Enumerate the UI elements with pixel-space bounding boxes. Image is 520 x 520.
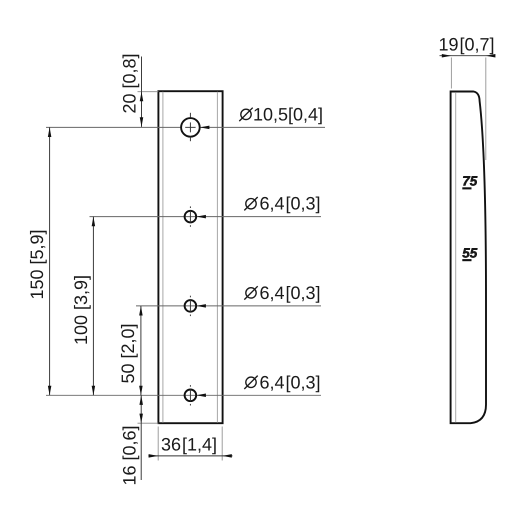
hole 2 d6.4 — [185, 211, 197, 223]
hole 3 d6.4 — [185, 300, 197, 312]
label hole1 d10.5 — [239, 104, 323, 124]
hole2 centerline vertical — [189, 206, 191, 226]
svg-text:[0,3]: [0,3] — [286, 283, 321, 303]
svg-text:150 [5,9]: 150 [5,9] — [27, 229, 47, 299]
extension line hole4 row — [46, 394, 321, 396]
dimension 50 line — [140, 306, 142, 395]
dimension 19 line — [440, 55, 495, 57]
hole 1 d10.5 — [181, 118, 200, 137]
dimension 19 extension lines — [450, 58, 452, 89]
svg-text:[0,3]: [0,3] — [286, 194, 321, 214]
dimension 20 line — [141, 57, 143, 127]
side view outline — [451, 92, 486, 424]
underline 75 — [462, 187, 471, 189]
svg-text:6,4: 6,4 — [260, 283, 285, 303]
dimension 36 line — [148, 455, 232, 457]
svg-text:100 [3,9]: 100 [3,9] — [71, 275, 91, 345]
svg-text:[0,4]: [0,4] — [288, 104, 323, 124]
extension line hole2 row — [90, 216, 322, 218]
svg-text:16 [0,6]: 16 [0,6] — [120, 425, 140, 485]
leader arrow hole3 — [196, 304, 206, 308]
label hole3 d6.4 — [244, 283, 320, 303]
svg-text:[1,4]: [1,4] — [182, 435, 217, 455]
hole3 centerline vertical — [189, 296, 191, 316]
svg-text:[0,7]: [0,7] — [460, 35, 495, 55]
svg-text:75: 75 — [462, 173, 478, 188]
hole1 centerline vertical — [185, 113, 195, 141]
extension line plate bottom left — [138, 422, 159, 424]
dimension 100 line — [92, 217, 94, 396]
leader arrow hole2 — [196, 215, 206, 219]
svg-text:6,4: 6,4 — [260, 194, 285, 214]
plate outline front view — [158, 91, 222, 423]
svg-text:6,4: 6,4 — [260, 372, 285, 392]
extension line hole3 row — [136, 305, 321, 307]
dimension 150 line — [49, 127, 51, 395]
dimension 16 line — [140, 395, 142, 480]
underline 55 — [462, 259, 471, 261]
hole4 centerline vertical — [189, 385, 191, 405]
dimension 36 extension lines — [157, 427, 159, 461]
label hole2 d6.4 — [244, 194, 320, 214]
svg-text:20 [0,8]: 20 [0,8] — [120, 53, 140, 113]
svg-text:10,5: 10,5 — [253, 104, 288, 124]
leader arrow hole1 — [200, 126, 210, 130]
svg-text:[0,3]: [0,3] — [286, 372, 321, 392]
svg-text:36: 36 — [161, 435, 181, 455]
extension line plate top left — [138, 91, 159, 93]
svg-text:19: 19 — [439, 35, 459, 55]
side view tangent line — [455, 92, 457, 422]
leader arrow hole4 — [196, 394, 206, 398]
plate edge tangent line left — [162, 92, 164, 423]
svg-text:50 [2,0]: 50 [2,0] — [118, 323, 138, 383]
svg-text:55: 55 — [462, 245, 478, 260]
label hole4 d6.4 — [244, 372, 320, 392]
hole 4 d6.4 — [185, 390, 197, 402]
plate edge tangent line right — [216, 92, 218, 423]
extension line hole1 row — [46, 126, 325, 128]
